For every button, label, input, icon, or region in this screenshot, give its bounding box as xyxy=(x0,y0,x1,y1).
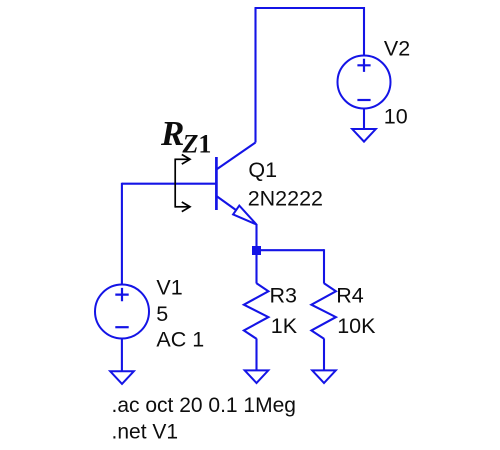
wire node to R4 horizontal xyxy=(257,249,325,251)
resistor R3 zigzag xyxy=(244,283,269,339)
wire base horizontal xyxy=(122,183,216,185)
transistor Q1 emitter diagonal xyxy=(216,196,238,212)
svg-text:R4: R4 xyxy=(336,283,364,307)
ground below V2 xyxy=(352,129,376,142)
wire V2 top lead xyxy=(363,7,365,56)
svg-text:V2: V2 xyxy=(384,37,410,61)
wire R3 to ground xyxy=(255,339,257,371)
wire R4 vertical lead xyxy=(323,249,325,283)
svg-text:.net V1: .net V1 xyxy=(112,421,179,444)
wire node to R3 xyxy=(255,251,257,284)
V1 plus sign xyxy=(115,288,128,301)
svg-text:5: 5 xyxy=(156,302,168,326)
wire emitter to node xyxy=(255,224,257,251)
ground below R3 xyxy=(245,370,269,383)
wire V1 to ground xyxy=(121,339,123,372)
wire top horizontal xyxy=(255,7,365,9)
transistor Q1 collector diagonal xyxy=(216,143,255,170)
transistor Q1 base bar xyxy=(215,157,218,210)
wire V1 top lead xyxy=(121,183,123,285)
svg-text:Q1: Q1 xyxy=(248,158,277,182)
svg-text:.ac oct 20 0.1 1Meg: .ac oct 20 0.1 1Meg xyxy=(112,394,296,417)
svg-text:AC 1: AC 1 xyxy=(156,328,204,352)
V1 minus sign xyxy=(115,326,128,328)
svg-text:R3: R3 xyxy=(270,283,298,307)
transistor Q1 emitter arrow xyxy=(233,206,256,225)
svg-text:1K: 1K xyxy=(271,314,298,338)
V2 plus sign xyxy=(357,59,370,72)
wire R4 to ground xyxy=(323,339,325,371)
V2 minus sign xyxy=(357,99,370,101)
voltage source V1 circle xyxy=(95,285,149,339)
node junction square xyxy=(252,246,261,255)
resistor R4 zigzag xyxy=(311,283,336,339)
svg-text:V1: V1 xyxy=(156,275,182,299)
ground below V1 xyxy=(110,371,134,384)
svg-text:Z1: Z1 xyxy=(182,130,212,159)
svg-text:2N2222: 2N2222 xyxy=(248,187,323,211)
wire collector vertical xyxy=(254,8,256,143)
svg-text:10K: 10K xyxy=(337,314,376,338)
annotation measurement arrow xyxy=(175,155,190,212)
svg-text:10: 10 xyxy=(384,105,408,129)
voltage source V2 circle xyxy=(338,56,391,109)
ground below R4 xyxy=(312,370,336,383)
svg-text:R: R xyxy=(160,114,184,153)
wire V2 to ground xyxy=(363,109,365,130)
